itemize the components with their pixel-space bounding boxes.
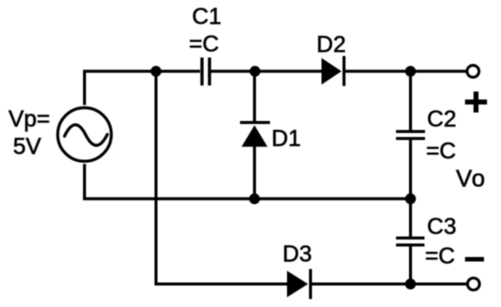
svg-text:C3: C3 xyxy=(427,213,456,239)
capacitor C2 plates xyxy=(396,130,425,133)
minus sign xyxy=(465,257,484,262)
junction node top right xyxy=(405,66,416,77)
plus sign xyxy=(465,100,487,105)
svg-text:C1: C1 xyxy=(192,3,221,29)
svg-text:=C: =C xyxy=(425,243,455,269)
junction node D1 anode on middle rail xyxy=(249,193,260,204)
svg-text:=C: =C xyxy=(426,138,456,164)
wire: C1 right plate to D2 xyxy=(211,70,322,73)
svg-text:5V: 5V xyxy=(13,133,42,159)
wire: left vertical rail and bottom rail to D3 xyxy=(156,71,287,284)
diode D1 (pointing up) xyxy=(240,121,270,124)
svg-text:Vp=: Vp= xyxy=(9,106,51,132)
junction node bottom right xyxy=(405,279,416,290)
junction node C2/C3 mid xyxy=(405,193,416,204)
diode D3 xyxy=(287,271,308,298)
svg-text:Vo: Vo xyxy=(456,166,486,193)
wire: source top riser to C1 left plate xyxy=(85,71,201,105)
AC source Vp xyxy=(58,108,112,162)
wire: top right node down to C2 xyxy=(409,71,412,131)
sine wave symbol xyxy=(65,125,108,146)
capacitor C3 plates xyxy=(396,237,425,240)
capacitor C1 plates xyxy=(200,58,203,86)
svg-text:C2: C2 xyxy=(427,106,456,132)
wire: D3 to minus terminal xyxy=(312,283,467,286)
wire: mid node down to C3 xyxy=(409,199,412,238)
wire: C3 to bottom node xyxy=(409,246,412,285)
terminal circle top right xyxy=(467,65,479,77)
svg-text:D1: D1 xyxy=(272,125,301,151)
svg-text:=C: =C xyxy=(189,31,219,57)
svg-text:D3: D3 xyxy=(283,241,312,267)
junction node C1/D1/D2 xyxy=(250,66,261,77)
wire: source bottom riser and middle rail xyxy=(85,164,410,199)
wire: C2 to mid node xyxy=(409,139,412,199)
wire: D2 to plus terminal xyxy=(346,70,467,73)
junction node top left xyxy=(151,66,162,77)
wire: node to D1 cathode xyxy=(253,71,256,122)
diode D2 xyxy=(322,58,342,85)
terminal circle bottom right xyxy=(468,278,480,290)
svg-text:D2: D2 xyxy=(317,31,346,57)
